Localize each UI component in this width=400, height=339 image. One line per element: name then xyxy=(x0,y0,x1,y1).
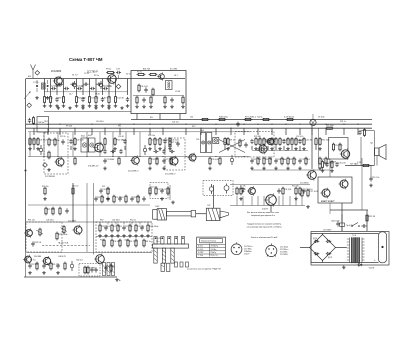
junction xyxy=(112,156,113,157)
ground G99 xyxy=(318,167,322,170)
resistor R151 xyxy=(111,239,121,248)
resistor R50 xyxy=(159,137,170,146)
svg-text:2СБ77: 2СБ77 xyxy=(262,209,269,211)
fuse F1 xyxy=(340,219,345,231)
wire bus drop xyxy=(343,128,345,135)
ground G29 xyxy=(107,106,111,109)
label ifr xyxy=(60,134,303,141)
capacitor C29l xyxy=(28,118,31,123)
switch contact K1 xyxy=(154,237,157,245)
junction xyxy=(185,156,186,157)
label fuse xyxy=(346,225,353,227)
resistor R24 xyxy=(136,96,138,105)
label L56 xyxy=(200,129,204,132)
connector block Sh2 xyxy=(37,117,49,133)
resistor R68 xyxy=(303,137,313,146)
wire v213 xyxy=(213,185,215,208)
wire seg xyxy=(224,146,226,150)
wire bl top xyxy=(26,221,152,223)
label bus6 xyxy=(190,117,193,119)
wire fm drop2 xyxy=(159,114,161,120)
box D9 xyxy=(203,181,233,196)
wire mid rail2 xyxy=(252,169,330,171)
resistor R114 xyxy=(149,187,151,196)
coil L1 xyxy=(42,83,46,89)
capacitor C43 xyxy=(69,139,72,144)
capacitor C14 xyxy=(126,97,129,102)
ground G145 xyxy=(128,234,132,237)
capacitor C8 xyxy=(81,97,84,102)
wire bus drop xyxy=(59,128,61,135)
svg-text:29,5 × Гц: 29,5 × Гц xyxy=(211,254,218,257)
svg-text:C3 0,05: C3 0,05 xyxy=(172,140,180,142)
resistor R88 xyxy=(219,157,221,166)
svg-text:Точность обозначения 110 мкФ: Точность обозначения 110 мкФ xyxy=(251,236,278,239)
IF transformer L3 xyxy=(81,138,88,152)
capacitor C20 xyxy=(51,85,60,90)
pinout circle V2 xyxy=(266,243,277,256)
capacitor C97 xyxy=(298,158,310,163)
resistor R37 xyxy=(363,128,365,137)
resistor R52 xyxy=(169,137,180,146)
ground G13 xyxy=(114,104,118,107)
resistor R41 xyxy=(33,137,35,146)
resistor R200 xyxy=(45,207,55,216)
svg-text:Л5 6,3в: Л5 6,3в xyxy=(318,116,324,118)
resistor R21 xyxy=(149,73,158,75)
junction xyxy=(149,124,150,125)
svg-text:Положение Кнопки: Положение Кнопки xyxy=(201,241,216,243)
label spk xyxy=(370,143,373,145)
svg-text:Схема Т-807 ЧМ: Схема Т-807 ЧМ xyxy=(69,57,103,62)
ground G22 xyxy=(181,105,185,108)
resistor R28 xyxy=(218,117,228,121)
wire v170b xyxy=(169,185,171,200)
wire bottom bus xyxy=(24,276,117,278)
svg-text:R9 1к: R9 1к xyxy=(230,140,235,142)
wire bus B3 xyxy=(26,127,372,129)
ground G42 xyxy=(36,147,40,150)
ground G142 xyxy=(110,234,114,237)
resistor R49 xyxy=(154,137,156,146)
capacitor C191 xyxy=(94,267,97,272)
wire bl vert xyxy=(131,222,133,225)
capacitor C184 xyxy=(56,263,59,268)
resistor R190 xyxy=(87,266,89,275)
ground G54 xyxy=(226,147,230,150)
junction xyxy=(74,128,75,129)
resistor R175 xyxy=(125,195,127,204)
ground G10 xyxy=(94,104,98,107)
label row top xyxy=(72,73,131,77)
resistor R102 xyxy=(331,160,333,169)
resistor R173 xyxy=(113,195,124,204)
electrolytic C90 xyxy=(39,145,42,155)
svg-text:R21 120: R21 120 xyxy=(322,140,331,142)
wire bus B2 xyxy=(26,123,372,125)
ground G110 xyxy=(43,197,47,200)
svg-text:С40 5,0: С40 5,0 xyxy=(72,186,78,188)
capacitor C34t xyxy=(70,83,75,86)
resistor R143 xyxy=(117,224,119,233)
ground G130 xyxy=(306,205,310,208)
svg-text:Р37: Р37 xyxy=(102,186,105,188)
ground G95 xyxy=(286,167,290,170)
wire bus B1 xyxy=(131,119,372,121)
capacitor C120 xyxy=(277,188,280,193)
svg-text:Ф4-1: Ф4-1 xyxy=(81,135,85,138)
capacitor C112 xyxy=(99,188,111,193)
svg-text:Д7Ж: Д7Ж xyxy=(328,257,332,259)
svg-text:74–96ц: 74–96ц xyxy=(211,249,217,251)
wire if vert xyxy=(86,132,88,157)
label T8 xyxy=(329,161,337,163)
label bl2 xyxy=(34,256,66,258)
ground G146 xyxy=(134,234,138,237)
switch contact K4 xyxy=(175,237,178,245)
resistor R150 xyxy=(103,239,105,248)
transistor T1 xyxy=(53,76,63,87)
wire if vert xyxy=(57,132,59,157)
wire fm int xyxy=(133,95,184,97)
capacitor C116 xyxy=(160,188,163,193)
transistor T7 xyxy=(257,144,267,155)
wire pw v1 xyxy=(341,214,343,219)
wire drop xyxy=(102,79,104,96)
wire top rail xyxy=(26,78,185,80)
switch pad P1 xyxy=(175,262,178,267)
tuning arrow P1 xyxy=(24,91,31,99)
capacitor C23 xyxy=(90,87,95,90)
wire drop xyxy=(50,79,52,96)
capacitor C100m xyxy=(169,150,174,153)
wire seg xyxy=(154,146,156,150)
resistor R185 xyxy=(64,262,66,271)
IF transformer L6 xyxy=(207,133,212,153)
svg-text:Las primeras serie en gabinete: Las primeras serie en gabinete «ПБД» 757 xyxy=(187,268,221,271)
svg-text:R25 56: R25 56 xyxy=(369,216,377,218)
dial shaft drum 2 xyxy=(206,208,220,220)
resistor R142 xyxy=(111,224,123,233)
wire fm drop3 xyxy=(179,114,181,120)
IF stage box D1 xyxy=(44,133,68,174)
bridge rectifier VD1-VD4 xyxy=(310,235,336,261)
resistor R154 xyxy=(135,239,137,248)
ground G182 xyxy=(42,271,46,274)
svg-text:Л-02: Л-02 xyxy=(155,206,160,208)
ground G27 xyxy=(81,106,85,109)
capacitor C33 xyxy=(61,139,64,144)
switch strip S3 xyxy=(171,248,174,263)
wire bus drop xyxy=(33,128,35,135)
wire lm vert xyxy=(263,196,265,206)
wire h186 xyxy=(230,184,310,186)
AF stage box D4 xyxy=(329,138,349,160)
resistor R115 xyxy=(155,187,167,196)
resistor R130 xyxy=(307,189,319,198)
resistor R65 xyxy=(291,137,293,146)
junction xyxy=(271,124,272,125)
resistor R7 xyxy=(88,95,99,104)
capacitor C170 xyxy=(94,196,104,201)
resistor R95 xyxy=(287,157,297,166)
junction xyxy=(243,124,244,125)
ground G116 xyxy=(160,197,164,200)
AF box D5 xyxy=(26,222,62,252)
wire bus drop xyxy=(257,128,259,135)
wire bl vert xyxy=(123,222,125,225)
switch contact K3 xyxy=(168,237,171,245)
capacitor C34b xyxy=(176,141,179,146)
svg-text:C21 20,0: C21 20,0 xyxy=(322,159,331,161)
svg-text:R9 1к: R9 1к xyxy=(58,97,63,99)
capacitor C93 xyxy=(274,158,286,163)
wire pw bot xyxy=(311,262,379,264)
label power xyxy=(323,230,332,232)
trimmer CT2 xyxy=(224,184,229,194)
resistor R183 xyxy=(50,262,60,271)
resistor R20 xyxy=(137,71,146,75)
svg-text:2СС58Ф-О: 2СС58Ф-О xyxy=(165,173,176,176)
svg-text:+: + xyxy=(374,259,376,262)
svg-text:C2 6800: C2 6800 xyxy=(106,159,115,161)
ground G81 xyxy=(103,167,107,170)
wire if vert xyxy=(99,132,101,157)
resistor R40 xyxy=(29,137,39,146)
svg-text:Р13 2к: Р13 2к xyxy=(60,136,66,138)
capacitor C5 xyxy=(55,97,63,102)
capacitor C47 xyxy=(123,139,126,144)
svg-text:R7 5,6к: R7 5,6к xyxy=(48,209,55,211)
ground G161 xyxy=(342,266,346,269)
dial shaft left cap xyxy=(153,210,158,220)
capacitor C99m xyxy=(162,149,165,154)
resistor R34b xyxy=(169,140,179,149)
ground G143 xyxy=(116,234,120,237)
resistor R145 xyxy=(129,224,131,233)
svg-text:R18 100к: R18 100к xyxy=(150,226,159,228)
resistor R61 xyxy=(275,137,277,146)
capacitor C98m xyxy=(153,150,158,153)
resistor R54 xyxy=(227,137,235,146)
svg-text:Р52 1к: Р52 1к xyxy=(130,220,136,222)
wire bus drop xyxy=(104,128,106,135)
wire bus drop xyxy=(311,128,313,135)
svg-text:R18 100к: R18 100к xyxy=(277,159,286,161)
electrolytic C92 xyxy=(230,155,233,165)
electrolytic C28b xyxy=(99,81,102,89)
electrolytic C28a xyxy=(73,81,76,89)
transistor T8 xyxy=(340,148,350,159)
label L34 xyxy=(81,135,85,138)
switch strip SB2 xyxy=(112,263,115,276)
ground G3 xyxy=(43,104,47,107)
resistor R69 xyxy=(315,137,317,146)
svg-text:C4 510: C4 510 xyxy=(114,241,122,243)
ground G68 xyxy=(302,147,306,150)
capacitor C32 xyxy=(236,122,239,127)
transistor T4 xyxy=(54,157,64,168)
crossing wire A xyxy=(219,140,245,153)
resistor R58 xyxy=(263,137,274,146)
resistor R33b xyxy=(48,151,50,160)
resistor R56 xyxy=(255,137,267,146)
svg-text:С24: С24 xyxy=(196,139,199,141)
svg-text:2СБ77: 2СБ77 xyxy=(244,253,249,255)
svg-text:R5 2,2к: R5 2,2к xyxy=(130,241,137,243)
capacitor C19a xyxy=(116,69,121,75)
svg-text:R9 1к: R9 1к xyxy=(274,140,279,142)
ground G140 xyxy=(98,234,102,237)
wire v73 xyxy=(72,183,74,222)
svg-text:2СС5855: 2СС5855 xyxy=(280,254,288,256)
wire out right xyxy=(330,209,368,211)
wire v312 xyxy=(311,126,313,169)
transistor T13 xyxy=(338,179,348,190)
resistor R83 xyxy=(149,157,159,166)
capacitor C150 xyxy=(31,241,42,246)
svg-text:Р5: Р5 xyxy=(81,86,83,88)
ground G18 xyxy=(142,105,146,108)
capacitor C178 xyxy=(142,196,145,201)
junction xyxy=(33,124,34,125)
test point diamond E4 xyxy=(43,163,48,168)
label 2SB77 xyxy=(321,201,335,203)
svg-text:Р41 15к: Р41 15к xyxy=(28,220,35,222)
wire seg xyxy=(164,146,166,150)
label SA1 xyxy=(156,238,162,243)
ground G26 xyxy=(68,106,72,109)
capacitor C180 xyxy=(28,263,38,268)
svg-text:Р3 1к: Р3 1к xyxy=(94,75,99,77)
junction xyxy=(119,124,120,125)
dial shaft left drum xyxy=(157,209,166,220)
svg-text:Ж5: Ж5 xyxy=(150,117,153,119)
svg-text:70×80кГц: 70×80кГц xyxy=(211,245,218,248)
resistor R28b xyxy=(325,125,334,129)
wire bridge feed xyxy=(300,247,310,249)
capacitor C176 xyxy=(130,196,141,201)
ground G58 xyxy=(262,147,266,150)
svg-text:Городов безголосого обработный: Городов безголосого обработный 40кГц xyxy=(247,223,282,226)
resistor R86 xyxy=(170,157,172,166)
wire v361 xyxy=(360,137,362,166)
transistor T3 xyxy=(157,72,164,80)
resistor R4 xyxy=(62,95,64,104)
resistor R92 xyxy=(269,157,271,166)
svg-text:10,7: 10,7 xyxy=(174,75,178,77)
wire mid rail3 xyxy=(252,150,308,152)
wire bl vert xyxy=(107,222,109,225)
svg-text:Б: Б xyxy=(119,280,121,282)
capacitor C35t xyxy=(83,83,88,86)
svg-text:Б 74,5: Б 74,5 xyxy=(198,249,203,251)
capacitor C141 xyxy=(104,225,107,230)
wire bl vert xyxy=(147,222,149,225)
svg-text:C4 510: C4 510 xyxy=(285,189,293,191)
transistor T5 xyxy=(130,155,139,165)
resistor R146 xyxy=(135,224,145,233)
wire seg xyxy=(283,146,285,150)
svg-text:Р47: Р47 xyxy=(100,220,103,222)
svg-text:С42 0,05: С42 0,05 xyxy=(150,187,157,189)
ground G70 xyxy=(318,147,322,150)
resistor R181 xyxy=(36,262,38,271)
svg-text:2СБ77 2СБ77: 2СБ77 2СБ77 xyxy=(321,201,335,203)
resistor R57 xyxy=(259,137,261,146)
resistor R29l xyxy=(32,116,34,125)
wire if vert xyxy=(125,132,127,157)
svg-text:безрамной для парения 4 м: безрамной для парения 4 м xyxy=(251,214,276,217)
label T17 xyxy=(88,268,96,270)
resistor R31 xyxy=(262,118,271,120)
resistor R111 xyxy=(72,187,74,196)
capacitor C29 xyxy=(142,97,145,102)
resistor R64 xyxy=(287,137,299,146)
wire v362 xyxy=(361,158,363,210)
transistor T4b label xyxy=(88,166,99,168)
ground G113 xyxy=(106,197,110,200)
svg-text:2СС58Ф-О: 2СС58Ф-О xyxy=(128,170,139,173)
ground G141 xyxy=(104,234,108,237)
resistor R122 xyxy=(295,187,297,196)
svg-text:С53: С53 xyxy=(124,240,127,242)
diode D1 xyxy=(242,187,245,193)
ground G6 xyxy=(62,104,66,107)
junction xyxy=(133,124,134,125)
wire shaft link xyxy=(196,213,207,215)
resistor R153 xyxy=(127,239,137,248)
ground G12 xyxy=(107,104,111,107)
label bus xyxy=(252,116,263,118)
capacitor C21 xyxy=(64,87,69,90)
resistor R34 xyxy=(54,138,56,147)
wire pw left xyxy=(310,234,312,263)
note line 1 xyxy=(247,212,279,214)
wire seg xyxy=(267,146,269,150)
transistor T10 xyxy=(247,186,255,196)
svg-text:Р50: Р50 xyxy=(100,240,103,242)
capacitor C36t xyxy=(96,83,101,86)
switch strip S5 xyxy=(167,263,170,271)
svg-text:Р17: Р17 xyxy=(192,126,195,128)
ground G147 xyxy=(140,234,144,237)
wire bus drop xyxy=(299,128,301,135)
wire bus drop xyxy=(119,128,121,135)
svg-text:R7 5,6к: R7 5,6к xyxy=(327,125,334,127)
ground G60 xyxy=(270,147,274,150)
wire seg xyxy=(275,146,277,150)
junction xyxy=(139,156,140,157)
label bus4 xyxy=(44,121,121,127)
svg-text:Тб 7,5: Тб 7,5 xyxy=(30,260,35,262)
wire drop xyxy=(127,79,129,96)
label 220 xyxy=(368,268,375,270)
resistor R113 xyxy=(107,187,109,196)
resistor R82 xyxy=(118,157,120,166)
resistor R27 xyxy=(164,96,166,105)
junction xyxy=(230,128,231,129)
label tb1 xyxy=(56,86,112,95)
resistor R160 xyxy=(56,232,67,241)
wire lm vert xyxy=(236,196,238,206)
wire seg xyxy=(315,146,317,150)
ground G89 xyxy=(250,167,254,170)
resistor R131 xyxy=(301,189,303,198)
wire bus drop xyxy=(47,128,49,135)
svg-text:Р31 1к: Р31 1к xyxy=(340,121,346,123)
ground G83 xyxy=(148,167,152,170)
